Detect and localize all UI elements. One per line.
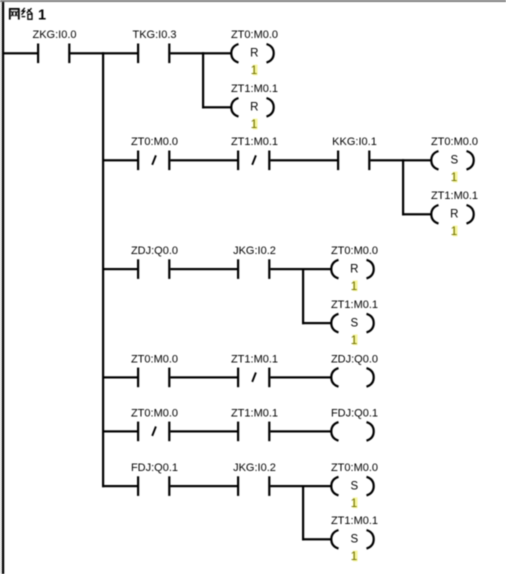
top window border xyxy=(0,0,506,2)
svg-text:S: S xyxy=(350,318,358,330)
wire rung2 seg3 xyxy=(270,159,337,161)
contact M0.1 NC (ZT1:M0.1 NC) xyxy=(231,136,278,170)
wire rung6 seg1 xyxy=(102,485,137,487)
value 1 under coil M0.0 reset 3 xyxy=(351,279,358,293)
svg-text:ZDJ:Q0.0: ZDJ:Q0.0 xyxy=(331,353,378,365)
wire rung1 branch seg xyxy=(202,106,232,108)
contact I0.1 (KKG:I0.1) xyxy=(332,136,377,170)
wire rung1 coil branch xyxy=(202,52,204,108)
value 1 under coil M0.1 reset xyxy=(251,117,258,131)
svg-text:ZDJ:Q0.0: ZDJ:Q0.0 xyxy=(131,245,178,257)
contact Q0.1 (FDJ:Q0.1) xyxy=(131,462,178,496)
wire rung1 seg2 xyxy=(70,52,137,54)
wire rung3 seg1 xyxy=(102,268,137,270)
left dithered scrollbar strip xyxy=(0,2,2,574)
wire rung3 seg2 xyxy=(170,268,237,270)
svg-text:ZT0:M0.0: ZT0:M0.0 xyxy=(431,136,478,148)
wire rung2 seg2 xyxy=(170,159,237,161)
wire rung1 seg3 xyxy=(170,52,231,54)
svg-text:1: 1 xyxy=(351,279,358,293)
wire rung4 seg2 xyxy=(170,376,237,378)
wire rung6 branch seg xyxy=(302,538,332,540)
svg-text:FDJ:Q0.1: FDJ:Q0.1 xyxy=(131,462,178,474)
wire rung3 coil branch xyxy=(302,268,304,324)
value 1 under coil M0.1 set xyxy=(351,333,358,347)
svg-text:S: S xyxy=(350,481,358,493)
svg-text:ZT1:M0.1: ZT1:M0.1 xyxy=(231,83,278,95)
wire rung6 seg2 xyxy=(170,485,237,487)
coil M0.1 set (ZT1:M0.1 S) xyxy=(331,299,378,332)
svg-text:S: S xyxy=(450,155,458,167)
svg-text:1: 1 xyxy=(38,7,46,23)
wire branch rail node J1 xyxy=(102,52,104,487)
svg-text:R: R xyxy=(250,102,258,114)
contact I0.0 (ZKG:I0.0) xyxy=(32,29,76,63)
svg-text:ZT0:M0.0: ZT0:M0.0 xyxy=(131,136,178,148)
coil M0.1 reset 2 (ZT1:M0.1 R) xyxy=(431,190,478,223)
svg-text:ZT1:M0.1: ZT1:M0.1 xyxy=(331,515,378,527)
svg-text:ZT0:M0.0: ZT0:M0.0 xyxy=(331,245,378,257)
contact I0.3 (TKG:I0.3) xyxy=(132,29,176,63)
value 1 under coil M0.1 set 2 xyxy=(351,549,358,563)
wire rung5 seg1 xyxy=(102,430,137,432)
coil Q0.1 coil (FDJ:Q0.1) xyxy=(331,407,378,440)
svg-text:R: R xyxy=(450,209,458,221)
contact M0.1 NO (ZT1:M0.1) xyxy=(231,407,278,441)
svg-text:1: 1 xyxy=(351,333,358,347)
svg-text:1: 1 xyxy=(451,170,458,184)
contact M0.0 NC 2 (ZT0:M0.0 NC) xyxy=(131,407,178,441)
coil M0.0 set 2 (ZT0:M0.0 S) xyxy=(331,462,378,495)
wire rung2 seg1 xyxy=(102,159,137,161)
contact M0.0 NC (ZT0:M0.0 NC) xyxy=(131,136,178,170)
svg-text:R: R xyxy=(250,48,258,60)
contact I0.2 2 (JKG:I0.2) xyxy=(233,462,276,496)
svg-text:KKG:I0.1: KKG:I0.1 xyxy=(332,136,377,148)
svg-text:FDJ:Q0.1: FDJ:Q0.1 xyxy=(331,407,378,419)
contact M0.0 NO (ZT0:M0.0) xyxy=(131,353,178,387)
svg-text:ZT1:M0.1: ZT1:M0.1 xyxy=(231,407,278,419)
contact Q0.0 (ZDJ:Q0.0) xyxy=(131,245,178,279)
wire rung6 coil branch xyxy=(302,485,304,540)
wire rung6 seg3 xyxy=(270,485,331,487)
svg-text:1: 1 xyxy=(451,224,458,238)
wire rung1 seg1 xyxy=(2,52,37,54)
svg-text:ZT0:M0.0: ZT0:M0.0 xyxy=(131,353,178,365)
contact I0.2 (JKG:I0.2) xyxy=(233,245,276,279)
wire rung4 seg1 xyxy=(102,376,137,378)
contact M0.1 NC 2 (ZT1:M0.1 NC) xyxy=(231,353,278,387)
wire rung3 seg3 xyxy=(270,268,331,270)
left power rail xyxy=(2,2,4,574)
svg-text:JKG:I0.2: JKG:I0.2 xyxy=(233,245,276,257)
svg-text:TKG:I0.3: TKG:I0.3 xyxy=(132,29,176,41)
svg-text:ZT1:M0.1: ZT1:M0.1 xyxy=(331,299,378,311)
wire rung2 coil branch xyxy=(402,159,404,215)
svg-text:1: 1 xyxy=(251,63,258,77)
svg-text:ZT0:M0.0: ZT0:M0.0 xyxy=(131,407,178,419)
coil M0.1 set 2 (ZT1:M0.1 S) xyxy=(331,515,378,548)
wire rung3 branch seg xyxy=(302,322,332,324)
coil Q0.0 coil (ZDJ:Q0.0) xyxy=(331,353,378,386)
value 1 under coil M0.0 set xyxy=(451,170,458,184)
wire rung5 seg2 xyxy=(170,430,237,432)
wire rung2 branch seg xyxy=(402,213,432,215)
svg-text:ZT1:M0.1: ZT1:M0.1 xyxy=(231,353,278,365)
value 1 under coil M0.0 set 2 xyxy=(351,496,358,510)
value 1 under coil M0.0 reset xyxy=(251,63,258,77)
svg-text:JKG:I0.2: JKG:I0.2 xyxy=(233,462,276,474)
coil M0.0 set (ZT0:M0.0 S) xyxy=(431,136,478,169)
svg-text:ZT1:M0.1: ZT1:M0.1 xyxy=(431,190,478,202)
svg-text:1: 1 xyxy=(351,549,358,563)
svg-text:ZT0:M0.0: ZT0:M0.0 xyxy=(231,29,278,41)
coil M0.0 reset (ZT0:M0.0 R) xyxy=(231,29,278,62)
wire rung4 seg3 xyxy=(270,376,331,378)
wire rung5 seg3 xyxy=(270,430,331,432)
svg-text:S: S xyxy=(350,534,358,546)
wire rung2 seg4 xyxy=(370,159,431,161)
svg-text:R: R xyxy=(350,264,358,276)
coil M0.1 reset (ZT1:M0.1 R) xyxy=(231,83,278,116)
svg-text:ZKG:I0.0: ZKG:I0.0 xyxy=(32,29,76,41)
value 1 under coil M0.1 reset 2 xyxy=(451,224,458,238)
svg-text:1: 1 xyxy=(251,117,258,131)
network title 网络 1 xyxy=(9,7,46,23)
svg-text:ZT1:M0.1: ZT1:M0.1 xyxy=(231,136,278,148)
svg-text:1: 1 xyxy=(351,496,358,510)
svg-text:ZT0:M0.0: ZT0:M0.0 xyxy=(331,462,378,474)
coil M0.0 reset 3 (ZT0:M0.0 R) xyxy=(331,245,378,278)
